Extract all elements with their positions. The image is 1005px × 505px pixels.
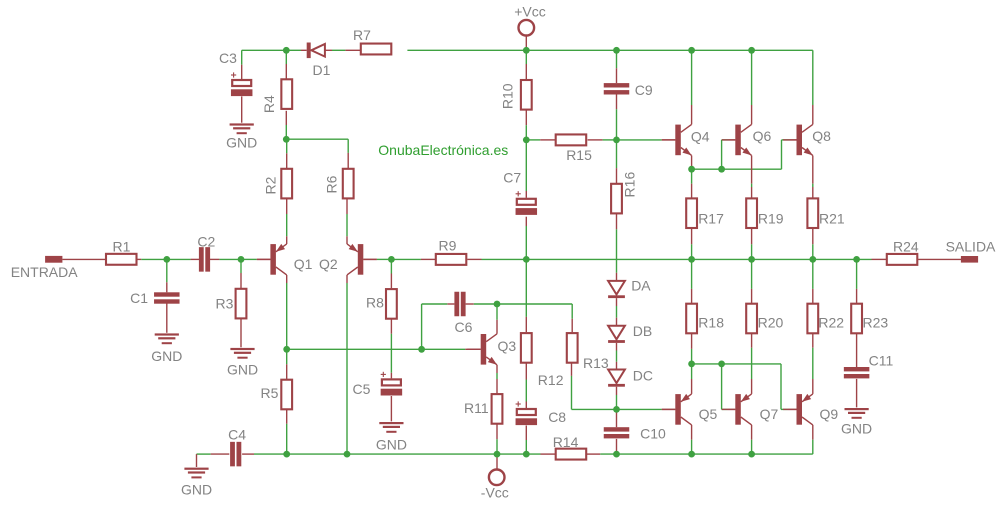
svg-text:OnubaElectrónica.es: OnubaElectrónica.es [378, 142, 508, 158]
svg-text:R14: R14 [553, 434, 579, 450]
svg-text:R12: R12 [538, 372, 564, 388]
svg-text:D1: D1 [313, 62, 331, 78]
svg-text:R9: R9 [439, 237, 457, 253]
svg-text:DB: DB [633, 323, 652, 339]
svg-text:-Vcc: -Vcc [481, 484, 509, 500]
svg-text:Q8: Q8 [812, 128, 831, 144]
svg-text:R22: R22 [818, 314, 844, 330]
svg-text:R23: R23 [863, 314, 889, 330]
svg-text:R11: R11 [464, 400, 489, 416]
svg-text:Q5: Q5 [699, 406, 718, 422]
svg-text:R24: R24 [893, 238, 919, 254]
svg-text:SALIDA: SALIDA [946, 238, 996, 254]
svg-text:C6: C6 [455, 319, 473, 335]
svg-text:C8: C8 [548, 409, 566, 425]
svg-text:GND: GND [226, 135, 257, 151]
svg-text:GND: GND [151, 348, 182, 364]
svg-text:Q2: Q2 [319, 256, 338, 272]
svg-text:R21: R21 [819, 210, 845, 226]
svg-text:R17: R17 [698, 210, 724, 226]
svg-text:R1: R1 [113, 238, 131, 254]
svg-text:R6: R6 [324, 175, 340, 193]
svg-text:GND: GND [181, 482, 212, 498]
svg-text:R7: R7 [353, 27, 371, 43]
svg-text:R15: R15 [566, 147, 592, 163]
svg-text:R10: R10 [500, 83, 516, 109]
svg-text:C4: C4 [228, 426, 246, 442]
svg-text:R5: R5 [261, 385, 279, 401]
svg-text:Q4: Q4 [691, 129, 710, 145]
svg-text:Q3: Q3 [498, 338, 517, 354]
svg-text:DC: DC [633, 368, 653, 384]
svg-text:R2: R2 [263, 176, 279, 194]
svg-text:C2: C2 [197, 234, 215, 250]
svg-text:C10: C10 [640, 426, 666, 442]
svg-text:Q1: Q1 [294, 256, 313, 272]
svg-text:C11: C11 [869, 353, 894, 369]
svg-text:Q6: Q6 [753, 128, 772, 144]
svg-text:DA: DA [631, 278, 651, 294]
svg-text:R13: R13 [583, 355, 609, 371]
svg-text:C3: C3 [219, 50, 237, 66]
svg-text:Q9: Q9 [820, 406, 839, 422]
svg-text:C1: C1 [130, 290, 148, 306]
svg-text:C9: C9 [635, 82, 653, 98]
svg-text:R16: R16 [622, 172, 638, 198]
svg-text:C7: C7 [503, 169, 521, 185]
svg-text:R20: R20 [758, 314, 784, 330]
svg-text:GND: GND [227, 362, 258, 378]
svg-text:ENTRADA: ENTRADA [11, 264, 79, 280]
svg-text:R8: R8 [366, 295, 384, 311]
svg-text:R4: R4 [261, 95, 277, 113]
svg-text:Q7: Q7 [760, 406, 779, 422]
svg-text:C5: C5 [353, 381, 371, 397]
svg-text:GND: GND [376, 437, 407, 453]
svg-text:R18: R18 [698, 314, 724, 330]
svg-text:R19: R19 [758, 210, 784, 226]
svg-text:GND: GND [841, 421, 872, 437]
svg-text:+Vcc: +Vcc [514, 4, 546, 20]
svg-text:R3: R3 [216, 296, 234, 312]
